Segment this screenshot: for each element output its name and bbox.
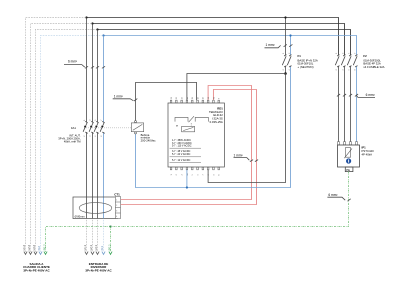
svg-text:1: 1: [336, 53, 338, 54]
arrow L1.1: [85, 252, 88, 255]
cable label 1mm2 bobina: [113, 94, 138, 101]
svg-text:5-7 : 12 V AC/DC: 5-7 : 12 V AC/DC: [172, 159, 191, 162]
svg-text:2: 2: [176, 174, 178, 175]
wire L2 bus: [93, 24, 345, 56]
svg-text:+ (NEUTRO): + (NEUTRO): [298, 65, 314, 69]
svg-text:7: 7: [101, 120, 103, 121]
arrow N.2 (blue): [39, 252, 42, 255]
wire L2 feeder: [92, 24, 94, 219]
relay RD1 name text: [209, 106, 223, 124]
node PE branch (green): [110, 226, 112, 228]
svg-text:L1.1: L1.1: [83, 245, 87, 251]
svg-text:1 mm²: 1 mm²: [234, 153, 243, 157]
FA1 mechanical gang link (dashed): [84, 127, 131, 129]
svg-text:M: M: [176, 126, 178, 128]
svg-text:8: 8: [101, 136, 103, 137]
SPD IP1 box: [338, 145, 360, 167]
svg-text:T: T: [219, 98, 221, 99]
svg-text:4: 4: [342, 69, 344, 70]
wire N feeder (blue): [103, 36, 105, 219]
svg-text:6: 6: [197, 174, 199, 175]
wire relay contact return (dark loop): [208, 74, 285, 183]
svg-text:5-7 : 24 V AC/DC: 5-7 : 24 V AC/DC: [172, 153, 191, 156]
svg-text:0: 0: [219, 174, 221, 175]
F1 label text: [298, 54, 318, 69]
svg-text:N.1: N.1: [100, 246, 104, 251]
wire SPD N (blue): [356, 67, 358, 142]
svg-text:3: 3: [289, 53, 291, 54]
svg-text:200-240Vac: 200-240Vac: [141, 139, 156, 143]
wire relay supply phase: [187, 74, 286, 101]
svg-text:2: 2: [336, 69, 338, 70]
IP1 label text: [362, 146, 375, 157]
fuse F2d: [353, 55, 357, 67]
svg-text:6: 6: [348, 69, 350, 70]
wire relay neutral pin (blue): [186, 170, 188, 188]
wire L1 feeder: [86, 18, 88, 219]
wire L1 bus: [87, 18, 339, 56]
cable label 6mm2 incoming: [64, 60, 105, 69]
svg-text:22: 22: [176, 97, 178, 99]
svg-text:40kA, relé TM: 40kA, relé TM: [64, 140, 81, 144]
bobina label text: [141, 133, 156, 143]
wire F1 neutral drop (blue): [136, 36, 291, 188]
svg-text:14: 14: [203, 97, 205, 99]
relay RD1 bottom pins: [170, 167, 219, 170]
svg-text:5: 5: [348, 53, 350, 54]
svg-text:FA1: FA1: [71, 126, 76, 130]
fuse F1a: [282, 55, 286, 67]
arrow N.1 (blue): [102, 252, 105, 255]
node L2 tap: [91, 22, 93, 24]
relay RD1 voltage table: [172, 139, 192, 162]
relay RD1 top pins: [170, 100, 219, 103]
arrow L3.1: [96, 252, 99, 255]
svg-text:N.2: N.2: [37, 246, 41, 251]
svg-text:3P+N+PE 400V AC: 3P+N+PE 400V AC: [23, 269, 50, 273]
relay RD1 box: [168, 103, 224, 167]
svg-text:L2.2: L2.2: [27, 245, 31, 251]
cable label 1mm2 CT wires: [234, 153, 259, 161]
wire L1.1 field (dotted): [86, 219, 88, 253]
wire F1 phase drop: [285, 18, 287, 74]
cable label 1mm2 F1: [265, 43, 293, 48]
svg-text:21: 21: [171, 97, 173, 99]
wire L3 bus field (dotted): [36, 30, 98, 253]
SPD IP1 PE terminal: [345, 167, 353, 172]
node F1 neutral tap (blue): [289, 34, 291, 36]
fuse F2c: [347, 55, 351, 67]
text SALIDA: [23, 262, 50, 273]
cable label 6mm2 PE: [327, 193, 350, 201]
cable label 6mm2 F2: [337, 93, 375, 97]
node neutral junction (blue): [186, 186, 188, 188]
svg-text:1: 1: [283, 53, 285, 54]
FA1 pole 4: [100, 121, 105, 133]
arrow PE.1 (green): [109, 252, 112, 255]
wire CT secondary s1 (red): [121, 86, 252, 200]
SPD IP1 varistor symbol: [344, 148, 352, 159]
svg-text:3: 3: [90, 120, 92, 121]
F2 pin numbers: [336, 53, 356, 71]
wire bobina feed: [136, 83, 197, 121]
svg-text:4: 4: [289, 69, 291, 70]
svg-text:7: 7: [354, 53, 356, 54]
wire PE.1 branch (green dashed): [110, 227, 112, 253]
wire PE main (green dashed): [46, 172, 349, 252]
wire N bus field (dotted blue): [41, 36, 104, 253]
svg-text:3: 3: [116, 211, 117, 213]
svg-text:3: 3: [182, 174, 184, 175]
svg-text:2: 2: [84, 136, 86, 137]
svg-text:PE.1: PE.1: [108, 244, 112, 251]
FA1 pole 3: [94, 121, 99, 133]
current transformer CT1: [73, 197, 118, 219]
SPD IP1 input terminals: [338, 142, 358, 145]
FA1 pole 2: [89, 121, 94, 133]
svg-text:S1: S1: [208, 97, 210, 99]
svg-text:6 mm²: 6 mm²: [328, 193, 337, 197]
svg-text:4: 4: [90, 136, 92, 137]
wire N bus (blue): [104, 36, 357, 56]
svg-text:1 mm²: 1 mm²: [266, 43, 275, 47]
svg-text:L3.1: L3.1: [94, 245, 98, 251]
svg-text:12: 12: [197, 97, 199, 99]
wire SPD L1: [338, 67, 340, 142]
node L3 tap: [96, 28, 98, 30]
svg-text:5-7 : 110 V AC/DC: 5-7 : 110 V AC/DC: [172, 145, 192, 148]
node F1 output junction: [284, 72, 287, 75]
svg-text:CT1: CT1: [114, 192, 120, 196]
svg-text:A1: A1: [186, 97, 189, 99]
wire L2.1 field (dotted): [92, 219, 94, 253]
wire L2 bus field (dotted): [31, 24, 93, 253]
arrow PE.2 (green): [44, 252, 47, 255]
svg-text:3P+N+PE 400V AC: 3P+N+PE 400V AC: [85, 269, 112, 273]
svg-text:9: 9: [213, 174, 215, 175]
arrow L1.2: [24, 252, 27, 255]
svg-text:1 mm²: 1 mm²: [114, 94, 123, 98]
relay RD1 internal contact: [175, 116, 208, 126]
wire L1 bus field (dotted): [26, 18, 87, 253]
svg-text:PE: PE: [346, 168, 350, 172]
wire L3.1 field (dotted): [97, 219, 99, 253]
svg-text:0.03S-25A: 0.03S-25A: [210, 120, 223, 124]
svg-text:7: 7: [203, 174, 205, 175]
svg-text:2: 2: [283, 69, 285, 70]
svg-text:L3.2: L3.2: [32, 245, 36, 251]
arrow L3.2: [34, 252, 37, 255]
FA1 pole 1: [83, 121, 88, 133]
relay RD1 test element: [182, 126, 195, 131]
svg-text:x4 FUSIBLE 32A: x4 FUSIBLE 32A: [363, 65, 384, 69]
svg-text:F2: F2: [363, 54, 367, 58]
wire L3 feeder: [97, 30, 99, 219]
wire SPD L2: [344, 67, 346, 142]
relay RD1 top pin numbers: [171, 97, 221, 99]
svg-text:4: 4: [116, 216, 117, 218]
svg-text:F1: F1: [298, 54, 302, 58]
svg-text:11: 11: [192, 97, 194, 99]
svg-text:L2.1: L2.1: [89, 245, 93, 251]
circuit breaker FA1: [58, 120, 131, 144]
fuse F2b: [341, 55, 345, 67]
shunt trip coil (bobina): [131, 121, 143, 134]
F2 label text: [363, 54, 384, 69]
node L1 tap: [85, 16, 87, 18]
svg-text:8: 8: [354, 69, 356, 70]
svg-text:5: 5: [192, 174, 194, 175]
fuse F2a: [335, 55, 339, 67]
fuse F1b: [287, 55, 291, 67]
wire SPD L3: [350, 67, 352, 142]
wire CT secondary s2 (red): [121, 90, 257, 205]
svg-text:1: 1: [116, 200, 117, 202]
svg-text:1: 1: [84, 120, 86, 121]
svg-text:Ø 80mm: Ø 80mm: [75, 214, 85, 218]
node N tap (blue): [102, 34, 104, 36]
arrow L2.1: [91, 252, 94, 255]
relay RD1 bottom pin numbers: [171, 173, 221, 175]
svg-text:1: 1: [171, 174, 173, 175]
svg-text:5: 5: [95, 120, 97, 121]
CT1 terminal strip: [114, 192, 120, 218]
arrow L2.2: [29, 252, 32, 255]
svg-text:PE.2: PE.2: [43, 244, 47, 251]
svg-text:2: 2: [116, 205, 117, 207]
svg-text:6: 6: [95, 136, 97, 137]
svg-text:6 mm²: 6 mm²: [366, 93, 375, 97]
SPD IP1 indicator circle: [346, 158, 351, 163]
svg-text:4P 40kA: 4P 40kA: [362, 152, 373, 156]
svg-text:S2: S2: [213, 97, 215, 99]
node F1 phase tap: [284, 16, 286, 18]
svg-text:L1.2: L1.2: [22, 245, 26, 251]
wire L3 bus: [98, 30, 351, 56]
svg-text:3: 3: [342, 53, 344, 54]
wire N.1 field (dotted blue): [103, 219, 105, 253]
svg-text:24: 24: [182, 97, 184, 99]
svg-text:6 mm²: 6 mm²: [68, 60, 77, 64]
text ENTRADA: [85, 262, 112, 273]
